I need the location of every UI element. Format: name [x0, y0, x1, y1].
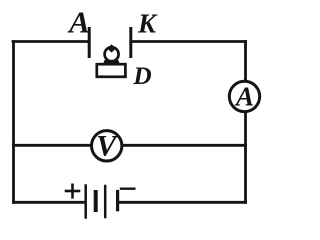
svg-text:K: K — [137, 9, 158, 39]
svg-text:A: A — [234, 82, 254, 112]
svg-text:V: V — [96, 130, 119, 163]
svg-text:A: A — [67, 5, 90, 40]
svg-text:D: D — [132, 61, 151, 90]
